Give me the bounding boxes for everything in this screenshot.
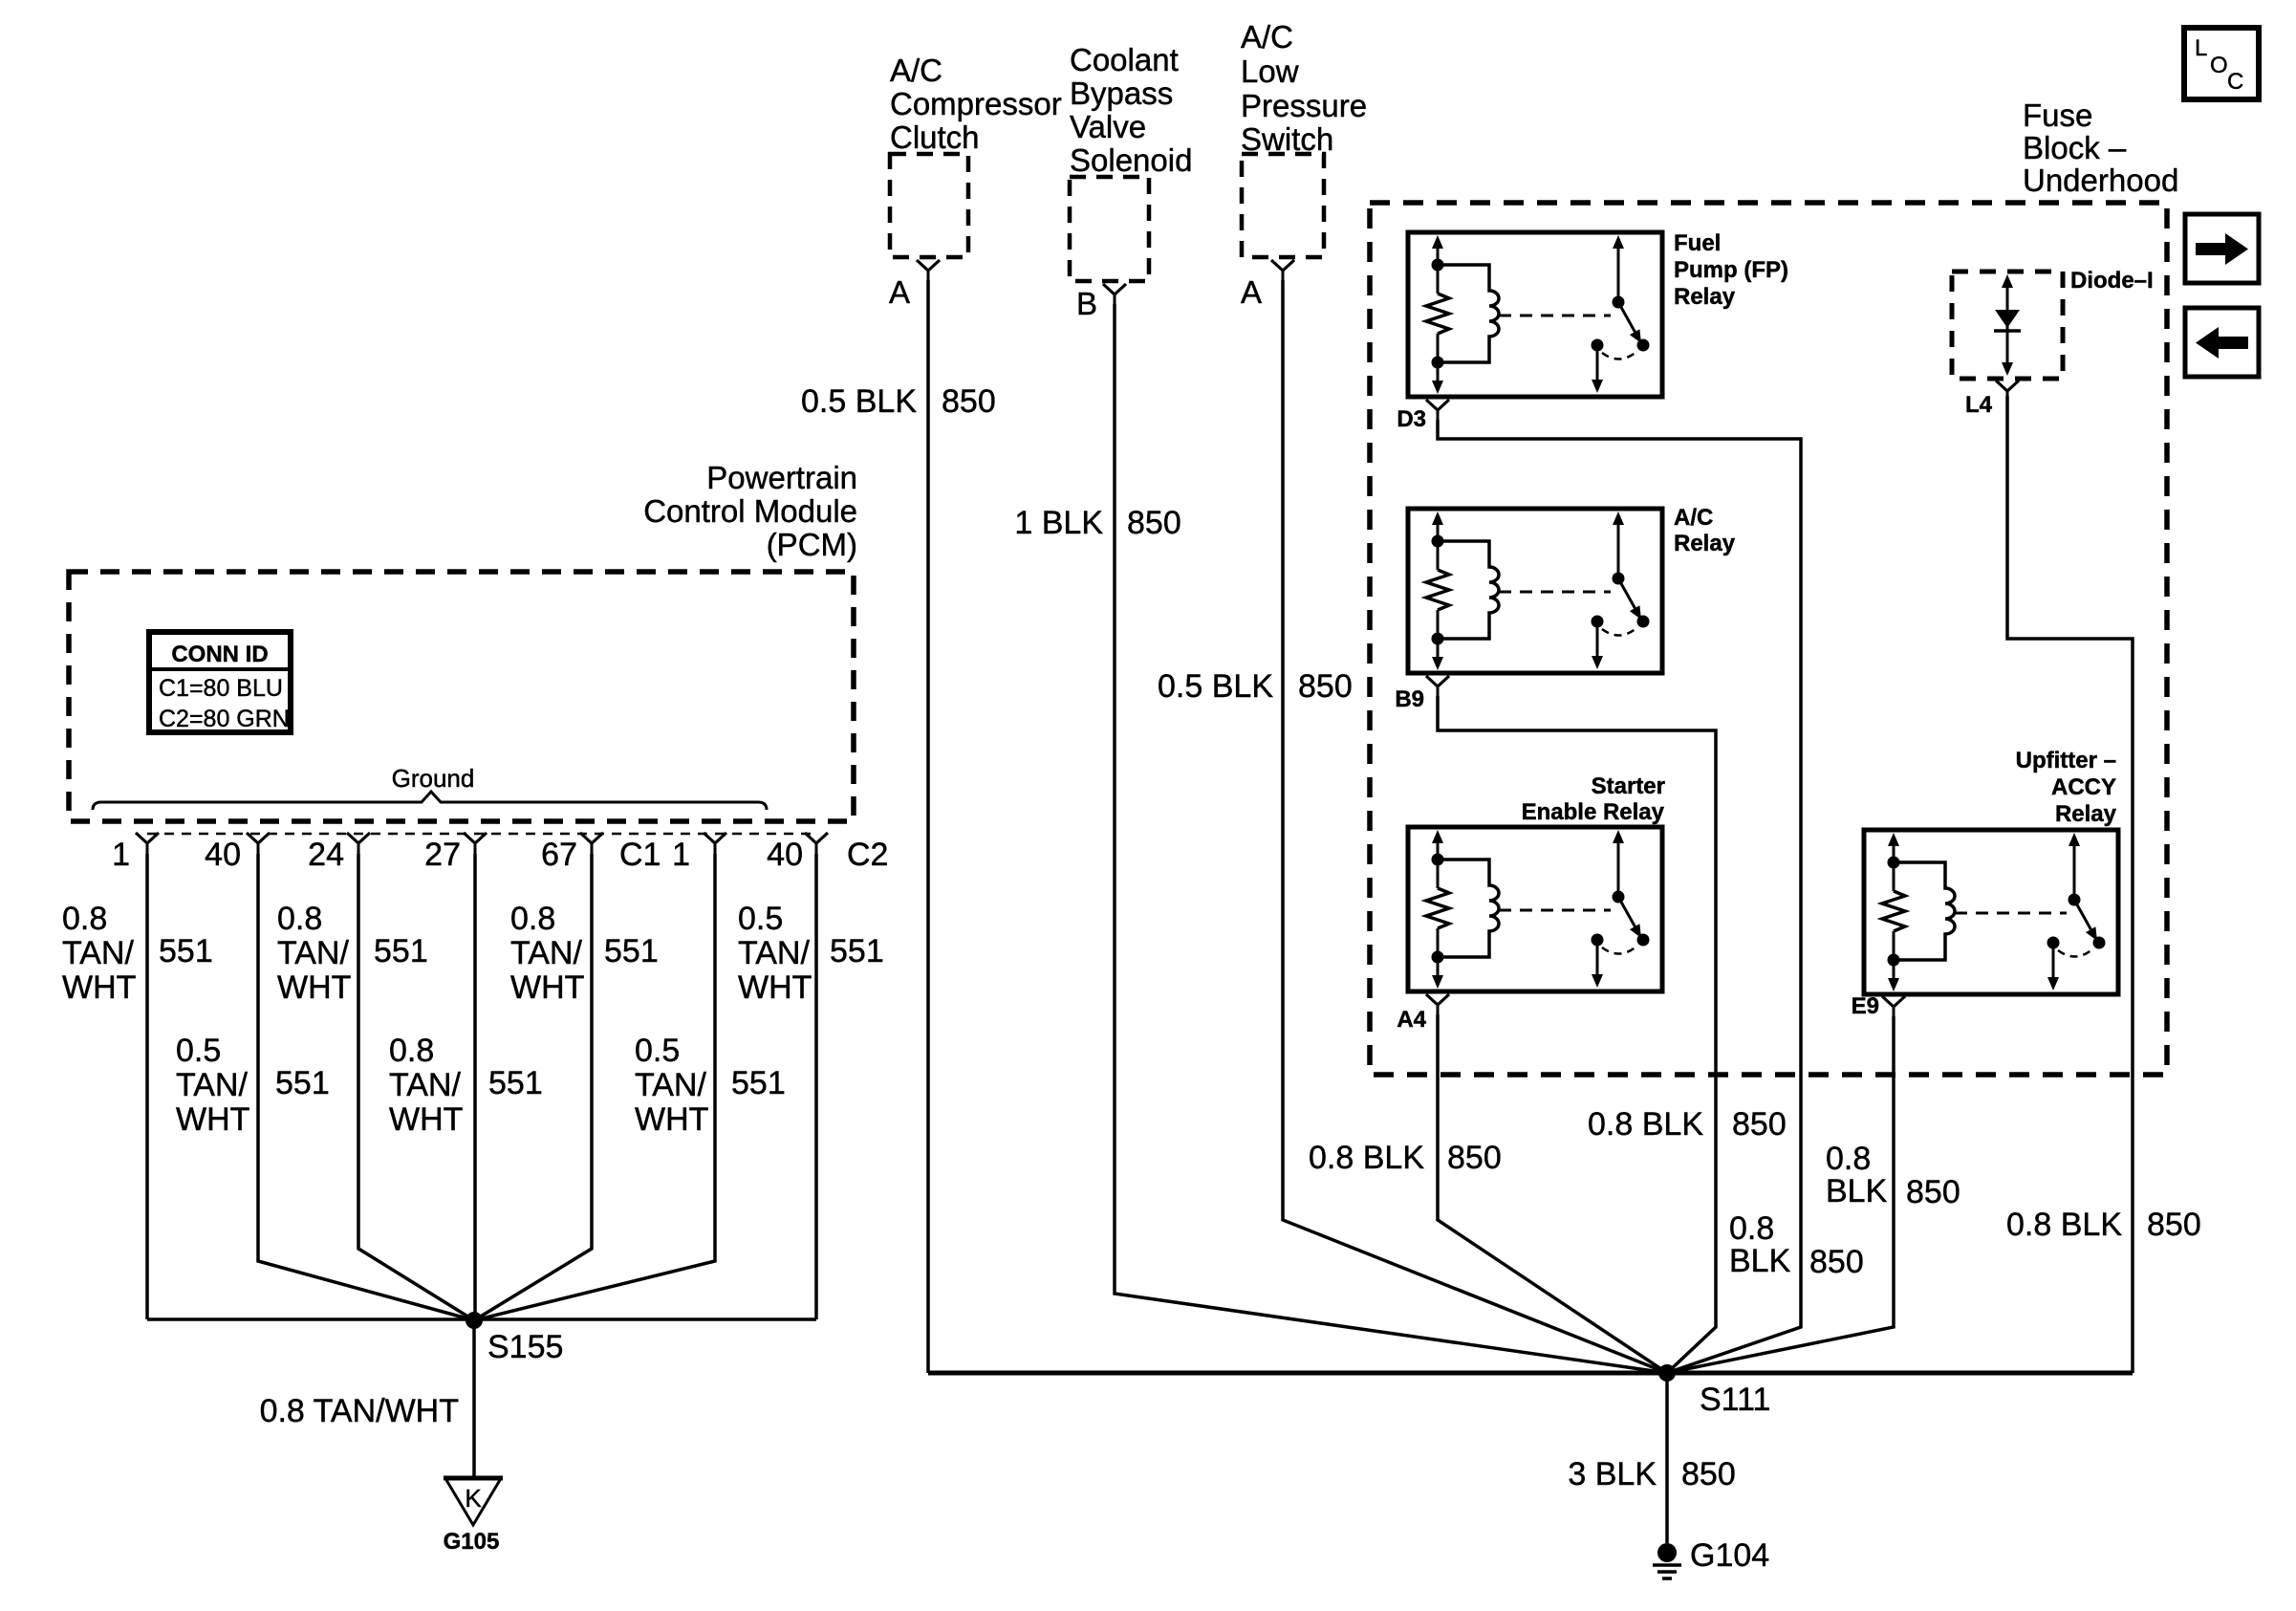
svg-text:BLK: BLK <box>1826 1173 1888 1209</box>
wire from A/C compressor clutch A to S111 <box>926 280 930 1373</box>
PCM pin 40 C2 connector Y <box>805 833 828 854</box>
diode symbol <box>1994 274 2021 376</box>
svg-text:850: 850 <box>1681 1456 1736 1492</box>
svg-text:TAN/: TAN/ <box>635 1067 706 1103</box>
svg-text:0.8: 0.8 <box>389 1033 434 1069</box>
svg-text:Solenoid: Solenoid <box>1070 142 1192 178</box>
svg-text:TAN/: TAN/ <box>277 935 349 971</box>
svg-text:A: A <box>889 274 910 310</box>
wire from B9 to S111 <box>1438 696 1716 1373</box>
svg-text:CONN ID: CONN ID <box>171 642 268 667</box>
svg-text:Enable Relay: Enable Relay <box>1522 799 1665 825</box>
A/C Compressor Clutch connector box <box>890 154 968 257</box>
svg-text:WHT: WHT <box>389 1101 463 1138</box>
svg-text:Starter: Starter <box>1592 773 1665 799</box>
svg-text:Pump (FP): Pump (FP) <box>1674 257 1788 283</box>
PCM pin 40 connector Y <box>247 833 270 854</box>
svg-text:1: 1 <box>672 837 690 873</box>
svg-text:TAN/: TAN/ <box>389 1067 461 1103</box>
svg-text:850: 850 <box>2147 1207 2201 1243</box>
PCM pin 24 connector Y <box>347 833 370 854</box>
svg-text:BLK: BLK <box>1729 1243 1791 1279</box>
Coolant Bypass Valve Solenoid connector box <box>1070 177 1149 281</box>
wire from L4 to S111 <box>2007 396 2133 1373</box>
svg-text:Underhood: Underhood <box>2023 163 2178 198</box>
svg-text:C1=80 BLU: C1=80 BLU <box>159 675 283 702</box>
wire from D3 to S111 <box>1438 420 1801 1373</box>
svg-text:551: 551 <box>488 1065 543 1101</box>
svg-text:Relay: Relay <box>2055 801 2117 827</box>
svg-text:551: 551 <box>604 933 659 969</box>
svg-text:Clutch: Clutch <box>890 120 980 155</box>
svg-text:WHT: WHT <box>635 1101 708 1138</box>
svg-text:850: 850 <box>1127 505 1181 541</box>
svg-text:Low: Low <box>1241 54 1299 89</box>
svg-text:0.8: 0.8 <box>277 901 322 937</box>
PCM pin 1 connector Y <box>136 833 159 854</box>
svg-text:27: 27 <box>424 837 461 873</box>
svg-text:Bypass: Bypass <box>1070 76 1173 111</box>
wire from A4 to S111 <box>1438 1014 1667 1373</box>
splice S111 <box>1658 1364 1676 1382</box>
Powertrain Control Module (PCM) box <box>69 572 854 821</box>
svg-text:(PCM): (PCM) <box>767 527 857 562</box>
svg-text:0.8 TAN/WHT: 0.8 TAN/WHT <box>260 1393 459 1429</box>
svg-text:40: 40 <box>767 837 803 873</box>
ground G104 <box>1653 1543 1681 1578</box>
svg-text:40: 40 <box>205 837 241 873</box>
CONN ID table <box>149 632 291 732</box>
Upfitter - ACCY Relay <box>1864 830 2118 994</box>
svg-text:Switch: Switch <box>1241 121 1333 157</box>
svg-text:WHT: WHT <box>510 969 584 1006</box>
wire from S111 to G104 <box>1665 1373 1669 1543</box>
svg-text:TAN/: TAN/ <box>510 935 582 971</box>
svg-text:0.5: 0.5 <box>176 1033 221 1069</box>
connector Y at low pressure switch pin A <box>1271 260 1294 281</box>
svg-text:Relay: Relay <box>1674 531 1736 556</box>
svg-text:WHT: WHT <box>176 1101 249 1138</box>
connector Y at diode pin L4 <box>1996 381 2019 402</box>
svg-text:E9: E9 <box>1852 993 1879 1019</box>
svg-text:Powertrain: Powertrain <box>706 460 857 495</box>
wire PCM C2 pin 1 to S155 <box>474 854 715 1320</box>
svg-text:B: B <box>1076 286 1097 321</box>
svg-text:S155: S155 <box>487 1329 563 1365</box>
svg-text:O: O <box>2210 53 2228 78</box>
svg-text:850: 850 <box>942 383 996 420</box>
svg-text:C2=80 GRN: C2=80 GRN <box>159 706 290 732</box>
wire from low pressure switch A to S111 <box>1283 280 1667 1373</box>
wire PCM pin 40 to S155 <box>258 854 474 1320</box>
svg-text:WHT: WHT <box>62 969 136 1006</box>
svg-text:1 BLK: 1 BLK <box>1014 505 1103 541</box>
PCM pin 27 connector Y <box>464 833 487 854</box>
svg-text:Coolant: Coolant <box>1070 42 1179 77</box>
svg-text:G104: G104 <box>1690 1537 1769 1574</box>
svg-text:0.8: 0.8 <box>510 901 555 937</box>
svg-text:G105: G105 <box>444 1529 500 1555</box>
svg-text:0.8 BLK: 0.8 BLK <box>1309 1140 1424 1176</box>
svg-text:C1: C1 <box>619 837 661 873</box>
svg-text:Valve: Valve <box>1070 109 1146 144</box>
svg-text:Compressor: Compressor <box>890 86 1062 121</box>
PCM pin 1 C2 connector Y <box>704 833 726 854</box>
svg-text:850: 850 <box>1906 1174 1960 1210</box>
Fuel Pump (FP) Relay <box>1408 232 1662 397</box>
svg-text:0.8: 0.8 <box>1826 1141 1871 1177</box>
svg-text:0.8 BLK: 0.8 BLK <box>1588 1106 1703 1143</box>
ground G105 triangle K <box>444 1478 503 1525</box>
right arrow box <box>2185 214 2259 283</box>
svg-text:850: 850 <box>1447 1140 1502 1176</box>
svg-text:0.8 BLK: 0.8 BLK <box>2006 1207 2122 1243</box>
svg-text:D3: D3 <box>1397 406 1426 432</box>
svg-text:551: 551 <box>830 933 884 969</box>
svg-text:Block –: Block – <box>2023 130 2127 165</box>
svg-text:Pressure: Pressure <box>1241 88 1367 123</box>
svg-text:0.8: 0.8 <box>1729 1210 1774 1247</box>
connector Y at upfitter relay pin E9 <box>1882 996 1905 1017</box>
Ground brace <box>93 792 767 810</box>
svg-text:C2: C2 <box>847 837 888 873</box>
svg-text:L: L <box>2195 35 2207 61</box>
svg-text:K: K <box>465 1484 482 1513</box>
Starter Enable Relay <box>1408 827 1662 991</box>
svg-text:Relay: Relay <box>1674 284 1736 310</box>
wire from S155 to G105 <box>472 1320 476 1478</box>
svg-text:0.5 BLK: 0.5 BLK <box>1158 668 1273 705</box>
svg-text:551: 551 <box>374 933 428 969</box>
S155 bus wire <box>147 1317 816 1321</box>
svg-text:Control Module: Control Module <box>643 493 857 529</box>
svg-text:0.5: 0.5 <box>738 901 783 937</box>
svg-text:3 BLK: 3 BLK <box>1568 1456 1657 1492</box>
left arrow box <box>2185 308 2259 377</box>
svg-text:551: 551 <box>159 933 213 969</box>
svg-text:0.5: 0.5 <box>635 1033 680 1069</box>
svg-text:TAN/: TAN/ <box>62 935 134 971</box>
svg-text:551: 551 <box>731 1065 786 1101</box>
wire PCM C2 pin 40 to S155 <box>814 854 818 1319</box>
svg-text:TAN/: TAN/ <box>176 1067 248 1103</box>
svg-text:850: 850 <box>1809 1244 1864 1280</box>
connector Y at A/C relay pin B9 <box>1426 676 1449 697</box>
wire PCM pin 24 to S155 <box>358 854 474 1320</box>
svg-text:850: 850 <box>1298 668 1353 705</box>
svg-text:850: 850 <box>1732 1106 1787 1143</box>
connector Y at A/C compressor clutch pin A <box>917 260 940 281</box>
svg-text:B9: B9 <box>1395 686 1424 712</box>
svg-text:A/C: A/C <box>1241 19 1293 54</box>
LOC box <box>2184 28 2259 99</box>
PCM connector dashed line <box>147 833 816 836</box>
svg-text:Fuse: Fuse <box>2023 98 2092 133</box>
svg-text:L4: L4 <box>1965 392 1993 418</box>
svg-text:A: A <box>1241 274 1262 310</box>
wire PCM pin 27 to S155 <box>473 854 477 1320</box>
wire from E9 to S111 <box>1667 1016 1894 1373</box>
svg-text:1: 1 <box>112 837 130 873</box>
svg-text:A/C: A/C <box>890 53 942 88</box>
connector Y at coolant bypass pin B <box>1103 284 1126 305</box>
svg-text:0.8: 0.8 <box>62 901 107 937</box>
svg-text:Ground: Ground <box>392 764 475 793</box>
svg-text:24: 24 <box>308 837 344 873</box>
svg-text:551: 551 <box>275 1065 330 1101</box>
svg-text:C: C <box>2227 69 2243 95</box>
svg-text:A4: A4 <box>1397 1007 1426 1033</box>
wire PCM pin 67 to S155 <box>474 854 592 1320</box>
svg-text:A/C: A/C <box>1674 505 1713 531</box>
wire PCM pin 1 to S155 <box>145 854 149 1319</box>
svg-text:Upfitter –: Upfitter – <box>2016 748 2116 773</box>
connector Y at starter enable relay pin A4 <box>1426 994 1449 1015</box>
splice S155 <box>466 1312 483 1329</box>
svg-text:Diode–I: Diode–I <box>2070 268 2154 294</box>
svg-text:0.5 BLK: 0.5 BLK <box>801 383 917 420</box>
svg-text:67: 67 <box>541 837 577 873</box>
Diode-I box <box>1952 272 2063 379</box>
A/C Low Pressure Switch connector box <box>1242 154 1324 257</box>
Fuse Block - Underhood box <box>1370 203 2167 1075</box>
S111 bus wire <box>928 1371 2133 1376</box>
svg-text:WHT: WHT <box>277 969 351 1006</box>
PCM pin 67 connector Y <box>580 833 603 854</box>
svg-text:ACCY: ACCY <box>2051 774 2116 800</box>
svg-text:TAN/: TAN/ <box>738 935 810 971</box>
A/C Relay <box>1408 509 1662 673</box>
svg-text:Fuel: Fuel <box>1674 230 1721 256</box>
svg-text:WHT: WHT <box>738 969 812 1006</box>
svg-text:S111: S111 <box>1700 1382 1770 1418</box>
connector Y at FP relay pin D3 <box>1426 400 1449 421</box>
wire from coolant bypass B to S111 <box>1115 304 1667 1373</box>
